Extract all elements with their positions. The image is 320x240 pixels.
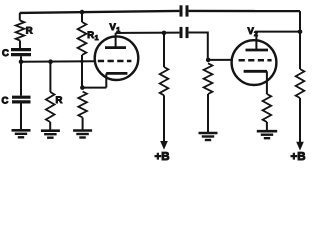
ground (below V2 cathode resistor) (257, 130, 277, 133)
svg-text:1: 1 (95, 35, 99, 42)
resistor (V2 grid leak) (204, 63, 213, 94)
resistor (V2 plate load, to +B) (296, 69, 305, 98)
junction R1 / grid bus (80, 60, 83, 63)
node C junction dot (cathode node V1) (80, 85, 85, 90)
wire node B down to R2 (49, 62, 51, 92)
resistor R (grid leak of V1) (46, 92, 55, 122)
wire top bus (left segment to C3) (20, 11, 180, 13)
tube V2 plate lead up (255, 32, 257, 50)
wire output load resistor down to +B arrow (299, 98, 301, 142)
svg-text:+B: +B (155, 151, 170, 162)
tube V1 plate lead up to plate wire (115, 33, 117, 48)
wire node A down to lower C (20, 62, 22, 96)
ground (below V2 grid-leak resistor) (199, 132, 218, 135)
junction dot R1 top on top bus (80, 10, 85, 15)
wire plate-load resistor down to +B arrow (163, 95, 165, 141)
svg-text:C: C (2, 48, 9, 59)
capacitor (top coupling cap in top bus) (180, 5, 183, 16)
ground (below grid-leak R) (41, 129, 60, 132)
wire top bus to R1 (81, 12, 83, 22)
node A junction dot (C1/C2/grid-bus) (19, 60, 24, 65)
resistor R1 (78, 22, 87, 55)
+B supply arrow (left) (160, 141, 168, 150)
wire V2 grid-leak resistor to ground (207, 94, 209, 133)
wire lower C to ground (20, 104, 22, 131)
wire grid bus y=61.5 from node A to V1 grid (21, 60, 95, 63)
resistor (V2 cathode bias) (263, 94, 272, 122)
wire grid-leak R to ground (49, 122, 51, 131)
resistor (V1 cathode bias) (78, 92, 87, 118)
tube V2 plate bar (246, 49, 269, 52)
svg-text:R: R (56, 95, 63, 106)
wire V1 plate to coupling cap C4 (116, 32, 180, 34)
wire upper C to node A (20, 56, 22, 62)
tube V2 cathode lead down (266, 71, 268, 94)
wire V2 plate to right rail (256, 31, 300, 33)
+B supply arrow (right) (296, 142, 304, 151)
capacitor C (upper) (11, 48, 31, 51)
wire cathode node to V1 cathode (82, 87, 106, 89)
wire tap down to plate-load resistor (163, 33, 165, 67)
node B junction dot (grid resistor R2 tap) (48, 59, 53, 64)
junction dot right rail / V2 plate (298, 30, 303, 35)
resistor R (input grid resistor, top-left) (16, 21, 25, 41)
wire V2 grid node to tube V2 (208, 59, 232, 61)
ground (below V1 cathode resistor) (73, 129, 92, 132)
wire coupling cap to corner and down to V2 grid node (189, 33, 208, 60)
tube V2 cathode bar (244, 70, 267, 73)
svg-text:+B: +B (291, 151, 306, 162)
capacitor C (lower) (12, 96, 31, 99)
tube V1 plate bar (105, 46, 126, 49)
wire right rail down from top bus (299, 11, 301, 69)
svg-text:C: C (2, 96, 9, 107)
wire R bottom to upper C (19, 41, 21, 49)
wire left drop from top bus to R1 (19, 13, 21, 21)
tube V1 envelope (95, 36, 139, 80)
resistor (V1 plate load, to +B) (160, 67, 169, 95)
ground (below lower C) (12, 129, 31, 132)
tube V1 cathode bar (106, 72, 127, 75)
wire V2 cathode resistor to ground (266, 122, 268, 131)
svg-text:R: R (87, 30, 94, 41)
wire V1 cathode resistor to ground (82, 118, 84, 131)
svg-text:R: R (26, 26, 33, 37)
junction dot plate-load tap (162, 31, 167, 36)
tube V1 cathode lead (down-left hook) (105, 73, 107, 87)
wire top bus (right segment from C3) (189, 10, 300, 13)
capacitor (interstage coupling cap) (180, 27, 183, 38)
tube V1 grid (dashed) (98, 60, 132, 63)
tube V2 grid (dashed) (239, 59, 272, 62)
wire R1 bottom through grid bus down to cathode node (81, 55, 83, 88)
tube V2 envelope (232, 40, 277, 85)
node D junction dot (V2 grid) (206, 58, 211, 63)
